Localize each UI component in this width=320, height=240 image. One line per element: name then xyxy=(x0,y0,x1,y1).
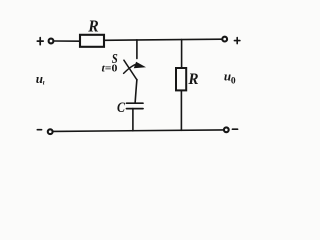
svg-text:R: R xyxy=(87,17,98,36)
switch S closing-motion arrow arc xyxy=(124,64,137,73)
svg-text:R: R xyxy=(187,71,198,88)
switch S arrowhead xyxy=(134,62,146,68)
svg-text:C: C xyxy=(117,100,126,116)
resistor R1 body xyxy=(80,35,104,47)
svg-text:t=0: t=0 xyxy=(102,63,119,75)
switch S blade (open, tilted left) xyxy=(124,60,137,80)
wire: capacitor C to bottom rail xyxy=(132,109,134,131)
wire: switch S to capacitor C xyxy=(135,80,137,104)
svg-text:ı: ı xyxy=(43,79,45,87)
wire: bottom rail xyxy=(53,130,223,132)
wire: right branch bottom (resistor R2 to bottom rail) xyxy=(180,90,182,130)
terminal circle bottom-right xyxy=(224,127,229,132)
terminal circle top-left xyxy=(49,39,54,44)
wire: top-left terminal to resistor R1 xyxy=(54,40,80,42)
wire: stub from top wire down to switch S xyxy=(136,40,138,59)
resistor R2 body (vertical, load) xyxy=(176,68,186,90)
wire: right branch top (top wire to resistor R2) xyxy=(181,40,183,68)
capacitor C bottom plate xyxy=(127,108,144,110)
terminal + (top-left) xyxy=(37,38,43,45)
terminal + (top-right) xyxy=(234,38,240,44)
terminal circle top-right xyxy=(222,37,227,42)
wire: resistor R1 to top-right terminal xyxy=(104,39,222,40)
terminal - (bottom-left) xyxy=(37,129,41,131)
terminal - (bottom-right) xyxy=(232,128,237,130)
terminal circle bottom-left xyxy=(48,129,53,134)
capacitor C top plate xyxy=(127,102,144,104)
svg-text:0: 0 xyxy=(231,77,236,87)
